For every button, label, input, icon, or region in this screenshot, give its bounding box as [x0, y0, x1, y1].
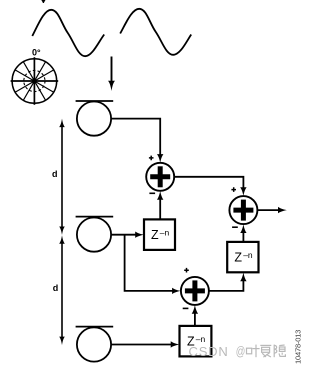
label + at S3	[184, 268, 189, 273]
watermark glyph xia	[260, 345, 271, 357]
sine wave 1	[32, 10, 104, 56]
microphone M2	[77, 218, 111, 252]
svg-text:Z: Z	[151, 228, 159, 242]
svg-text:–n: –n	[160, 228, 170, 238]
wire Z-n1 to S1 minus input	[159, 197, 161, 219]
microphone M3 baffle line	[76, 326, 114, 328]
svg-text:d: d	[53, 283, 59, 293]
dimension line d (M2-M3)	[59, 235, 65, 345]
microphone M3	[77, 327, 111, 361]
delay block Z-n 1	[144, 219, 175, 250]
branch wire M2 to summer S3	[125, 235, 175, 291]
label + at S1	[149, 156, 154, 161]
wire S1 output to summer S2	[174, 177, 243, 190]
delay block Z-n 3	[180, 326, 212, 357]
wire M2 to Z-n1	[111, 234, 138, 236]
output wire from S2	[258, 209, 280, 211]
label + at S2	[231, 187, 236, 192]
summer S2	[229, 196, 257, 224]
label - at S1	[149, 192, 155, 194]
watermark glyph yin	[274, 345, 285, 358]
summer S3	[181, 277, 209, 305]
microphone M1	[77, 102, 111, 136]
svg-text:d: d	[52, 169, 58, 179]
wire M1 to summer S1	[111, 119, 160, 157]
svg-text:CSDN: CSDN	[189, 344, 229, 359]
summer S1	[146, 163, 174, 191]
wire S3 output to Z-n2 bottom	[209, 279, 244, 291]
svg-text:0°: 0°	[32, 48, 41, 58]
polar pattern icon (wheel)	[11, 57, 59, 105]
svg-text:10478-013: 10478-013	[293, 330, 302, 364]
wire Z-n2 to S2 minus input	[242, 230, 244, 242]
dimension line d (M1-M2)	[59, 119, 65, 235]
svg-text:@: @	[236, 345, 246, 359]
svg-text:–n: –n	[196, 334, 206, 344]
cropped glyph fragment top edge	[41, 0, 45, 3]
label - at S3	[183, 307, 189, 309]
sine wave 2	[120, 9, 191, 55]
wire M3 to Z-n3	[111, 344, 174, 346]
microphone M2 baffle line	[76, 216, 114, 218]
svg-text:–n: –n	[243, 250, 253, 260]
incident-signal down arrow	[108, 57, 115, 92]
microphone M1 baffle line	[76, 100, 114, 102]
wire Z-n3 to S3 minus input	[194, 311, 196, 326]
label - at S2	[232, 226, 238, 228]
watermark glyph ye	[247, 345, 260, 358]
svg-text:Z: Z	[234, 251, 242, 265]
delay block Z-n 2	[227, 242, 258, 272]
